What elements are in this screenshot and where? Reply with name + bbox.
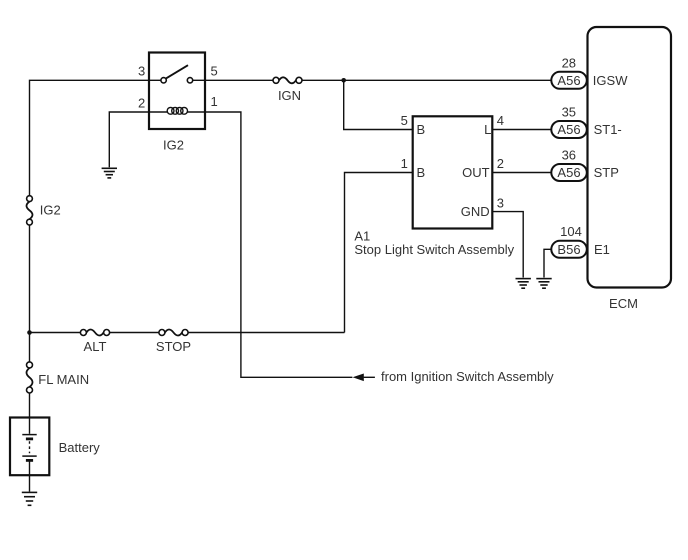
svg-text:1: 1 xyxy=(211,94,218,109)
svg-text:STOP: STOP xyxy=(156,339,191,354)
junction left xyxy=(27,330,32,335)
svg-text:4: 4 xyxy=(497,113,504,128)
svg-text:from Ignition Switch Assembly: from Ignition Switch Assembly xyxy=(381,369,554,384)
svg-text:A56: A56 xyxy=(557,73,580,88)
stop light switch assembly A1 box xyxy=(413,116,493,228)
wire pin 2 to ECM STP xyxy=(493,172,552,174)
svg-text:ST1-: ST1- xyxy=(594,122,622,137)
relay IG2 box xyxy=(149,53,205,130)
svg-text:FL MAIN: FL MAIN xyxy=(38,372,89,387)
svg-text:28: 28 xyxy=(562,55,576,70)
wire to battery xyxy=(29,393,31,418)
svg-text:E1: E1 xyxy=(594,242,610,257)
wire riser to stop light switch pin 1 xyxy=(345,173,413,333)
wire relay pin 2 to ground xyxy=(109,112,149,167)
svg-text:IG2: IG2 xyxy=(40,203,61,218)
ECM box xyxy=(588,27,672,288)
svg-text:3: 3 xyxy=(138,64,145,79)
svg-text:36: 36 xyxy=(562,148,576,163)
svg-text:ALT: ALT xyxy=(84,339,107,354)
svg-text:A56: A56 xyxy=(557,165,580,180)
ground battery xyxy=(22,492,37,505)
battery xyxy=(10,418,100,492)
wire pin 3 GND to ground xyxy=(493,212,524,278)
svg-text:B56: B56 xyxy=(557,242,580,257)
svg-text:104: 104 xyxy=(560,224,582,239)
connector A56 pin 36 STP xyxy=(551,148,619,182)
svg-text:IGN: IGN xyxy=(278,88,301,103)
stop light switch pin labels xyxy=(401,113,504,219)
svg-text:Stop Light Switch Assembly: Stop Light Switch Assembly xyxy=(354,242,514,257)
fusible link FL MAIN xyxy=(27,362,33,393)
svg-text:A1: A1 xyxy=(354,228,370,243)
svg-text:IGSW: IGSW xyxy=(593,73,628,88)
svg-text:L: L xyxy=(484,122,491,137)
wire relay pin 1 to ignition switch arrow xyxy=(205,112,352,377)
relay IG2 switch contacts xyxy=(149,65,205,83)
svg-text:OUT: OUT xyxy=(462,165,490,180)
wire ECM E1 to ground xyxy=(544,249,551,277)
label A1 Stop Light Switch Assembly xyxy=(354,228,514,257)
fuse STOP xyxy=(159,330,188,336)
connector B56 pin 104 E1 xyxy=(551,224,610,258)
wire relay pin 5 to fuse IGN xyxy=(205,79,273,81)
svg-text:1: 1 xyxy=(401,156,408,171)
ground ECM E1 xyxy=(536,279,551,289)
svg-text:B: B xyxy=(417,165,426,180)
svg-text:A56: A56 xyxy=(557,122,580,137)
wire fuse IGN to ECM IGSW xyxy=(302,79,551,81)
junction IGN node xyxy=(341,78,346,83)
svg-text:2: 2 xyxy=(497,156,504,171)
svg-text:ECM: ECM xyxy=(609,296,638,311)
wire ALT/STOP bus xyxy=(30,332,345,334)
svg-text:Battery: Battery xyxy=(59,440,101,455)
svg-text:35: 35 xyxy=(562,105,576,120)
wire battery feed left vertical top xyxy=(30,80,149,195)
svg-text:5: 5 xyxy=(211,64,218,79)
svg-text:2: 2 xyxy=(138,96,145,111)
fuse ALT xyxy=(80,330,109,336)
connector A56 pin 28 IGSW xyxy=(551,55,628,89)
ground relay coil xyxy=(102,168,117,178)
connector A56 pin 35 ST1- xyxy=(551,105,621,139)
wire left vertical lower xyxy=(29,333,31,362)
fuse IGN xyxy=(273,77,302,83)
fuse IG2 xyxy=(27,196,33,225)
svg-text:B: B xyxy=(417,122,426,137)
relay pin labels xyxy=(138,64,218,111)
wire pin 4 to ECM ST1- xyxy=(493,129,552,131)
wire junction down to stop light switch pin 5 xyxy=(344,80,412,129)
ground stop light switch xyxy=(516,279,531,289)
svg-text:5: 5 xyxy=(401,113,408,128)
relay IG2 coil xyxy=(149,107,205,114)
svg-text:STP: STP xyxy=(594,165,619,180)
svg-text:IG2: IG2 xyxy=(163,138,184,153)
wire left vertical mid xyxy=(29,225,31,333)
arrow from Ignition Switch Assembly xyxy=(353,369,555,384)
svg-text:GND: GND xyxy=(461,204,490,219)
svg-text:3: 3 xyxy=(497,195,504,210)
